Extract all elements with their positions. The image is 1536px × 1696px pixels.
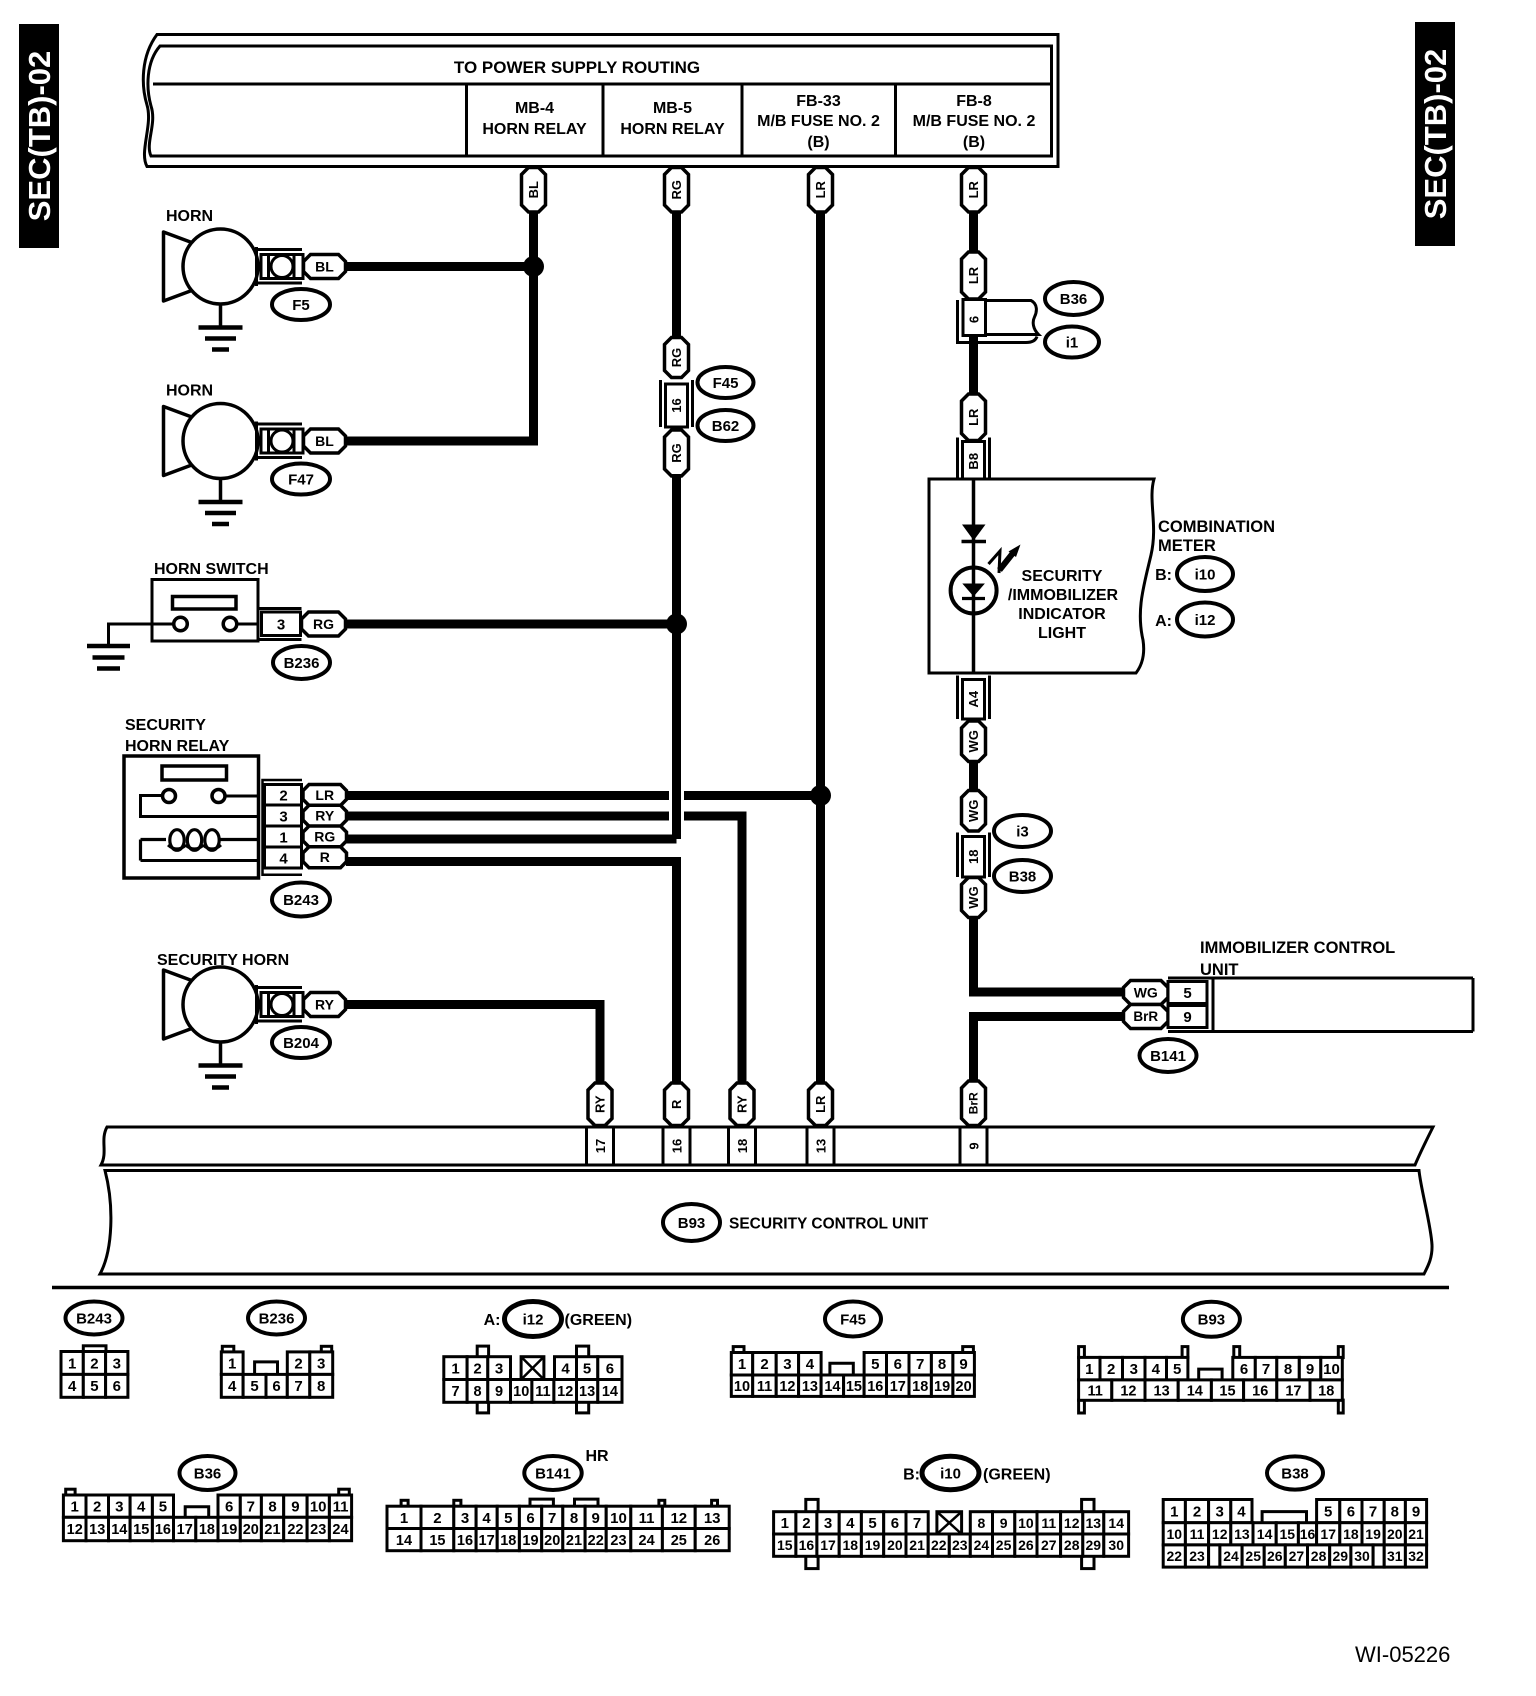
svg-text:9: 9 (1000, 1515, 1008, 1531)
svg-text:HORN RELAY: HORN RELAY (620, 121, 725, 138)
pin 9 on control unit (960, 1127, 987, 1165)
connector ellipse i1 (1045, 327, 1099, 358)
wire relay pin1 RG lead (346, 835, 677, 844)
svg-text:8: 8 (473, 1384, 481, 1400)
svg-text:2: 2 (760, 1356, 768, 1373)
svg-text:i12: i12 (523, 1311, 544, 1328)
ground horn switch (87, 624, 152, 669)
connector capsule WG at immobilizer (1124, 981, 1169, 1005)
svg-text:13: 13 (704, 1510, 721, 1527)
svg-text:11: 11 (1190, 1526, 1205, 1542)
svg-text:5: 5 (250, 1378, 258, 1395)
svg-text:7: 7 (247, 1499, 255, 1516)
svg-text:26: 26 (1018, 1537, 1034, 1553)
connector ellipse F45 (698, 367, 754, 398)
horn 1 body (164, 229, 304, 304)
svg-text:24: 24 (974, 1537, 990, 1553)
label B: i10 (GREEN) (903, 1467, 1050, 1484)
svg-text:B141: B141 (1150, 1048, 1186, 1065)
connector A4 (958, 676, 990, 720)
connector capsule RY pin17 (588, 1083, 612, 1126)
wire relay pin3 RY lead to pin 18 (346, 816, 742, 1085)
svg-text:3: 3 (1216, 1504, 1224, 1521)
svg-text:22: 22 (287, 1522, 303, 1538)
wire LR vertical from FB-33 to pin 13 (816, 210, 825, 1085)
svg-text:4: 4 (228, 1378, 237, 1395)
power supply routing box (143, 35, 1058, 167)
svg-text:LR: LR (813, 180, 828, 198)
svg-text:11: 11 (1088, 1383, 1103, 1399)
svg-text:8: 8 (1284, 1361, 1292, 1378)
svg-text:LR: LR (315, 787, 334, 803)
svg-text:i1: i1 (1066, 334, 1079, 351)
junction dot BL (523, 256, 544, 277)
connector capsule BL horn1 (304, 255, 346, 279)
svg-text:20: 20 (1387, 1526, 1403, 1542)
connector ellipse i12 (pinout) (505, 1302, 562, 1337)
horn switch pin 3 connector (259, 609, 302, 640)
svg-text:14: 14 (111, 1522, 127, 1538)
svg-text:23: 23 (310, 1522, 326, 1538)
svg-text:3: 3 (461, 1510, 469, 1527)
svg-text:26: 26 (704, 1533, 720, 1549)
svg-text:18: 18 (199, 1522, 215, 1538)
svg-text:13: 13 (579, 1384, 595, 1400)
svg-text:B243: B243 (76, 1310, 112, 1327)
svg-text:(B): (B) (807, 134, 829, 151)
svg-text:8: 8 (317, 1378, 325, 1395)
svg-text:18: 18 (912, 1379, 928, 1395)
svg-text:2: 2 (1193, 1504, 1201, 1521)
svg-text:COMBINATION: COMBINATION (1158, 518, 1275, 536)
svg-text:16: 16 (155, 1522, 171, 1538)
svg-text:16: 16 (867, 1379, 883, 1395)
svg-text:23: 23 (610, 1533, 626, 1549)
connector ellipse i12 (meter) (1177, 603, 1233, 637)
svg-text:F47: F47 (288, 471, 314, 488)
svg-text:1: 1 (1085, 1361, 1093, 1378)
svg-text:13: 13 (89, 1522, 105, 1538)
svg-text:LR: LR (966, 266, 981, 284)
svg-text:A4: A4 (966, 690, 981, 707)
svg-text:17: 17 (177, 1522, 193, 1538)
svg-text:5: 5 (868, 1515, 876, 1532)
svg-text:SECURITY: SECURITY (1022, 568, 1103, 585)
svg-text:29: 29 (1333, 1548, 1349, 1564)
svg-text:15: 15 (846, 1379, 862, 1395)
svg-text:20: 20 (887, 1537, 903, 1553)
svg-text:MB-5: MB-5 (653, 100, 692, 117)
svg-text:16: 16 (1252, 1383, 1268, 1399)
junction dot RG at horn switch (666, 614, 687, 635)
svg-text:5: 5 (583, 1361, 591, 1378)
svg-text:5: 5 (1183, 985, 1191, 1002)
svg-text:1: 1 (451, 1361, 459, 1378)
label COMBINATION METER (1158, 518, 1275, 555)
connector grid i12 (444, 1346, 622, 1413)
svg-text:17: 17 (820, 1537, 836, 1553)
svg-text:M/B FUSE NO. 2: M/B FUSE NO. 2 (757, 113, 880, 130)
svg-text:10: 10 (610, 1510, 627, 1527)
svg-text:HORN: HORN (166, 383, 213, 400)
svg-text:15: 15 (777, 1537, 793, 1553)
immobilizer pin 9 (1168, 1006, 1207, 1028)
svg-text:7: 7 (1262, 1361, 1270, 1378)
svg-text:21: 21 (1408, 1526, 1424, 1542)
label HR (586, 1448, 610, 1465)
svg-text:3: 3 (279, 809, 287, 826)
svg-text:B141: B141 (535, 1465, 571, 1482)
svg-text:3: 3 (317, 1356, 325, 1373)
svg-text:10: 10 (310, 1499, 327, 1516)
svg-text:4: 4 (846, 1515, 855, 1532)
svg-text:16: 16 (457, 1533, 473, 1549)
svg-text:BrR: BrR (967, 1092, 981, 1114)
svg-text:22: 22 (931, 1537, 947, 1553)
svg-text:12: 12 (1212, 1526, 1228, 1542)
svg-text:25: 25 (671, 1533, 687, 1549)
label SECURITY HORN RELAY (125, 717, 230, 755)
svg-text:21: 21 (909, 1537, 925, 1553)
svg-text:SEC(TB)-02: SEC(TB)-02 (22, 51, 57, 222)
svg-text:RY: RY (315, 808, 335, 824)
svg-text:5: 5 (90, 1378, 98, 1395)
svg-text:19: 19 (1365, 1526, 1381, 1542)
connector ellipse B38 (pinout) (1267, 1456, 1323, 1489)
svg-text:18: 18 (735, 1139, 750, 1153)
svg-text:/IMMOBILIZER: /IMMOBILIZER (1008, 587, 1119, 604)
svg-text:6: 6 (272, 1378, 280, 1395)
svg-text:3: 3 (824, 1515, 832, 1532)
ground horn 1 (199, 304, 243, 350)
svg-text:(GREEN): (GREEN) (983, 1467, 1051, 1484)
svg-text:14: 14 (1257, 1526, 1273, 1542)
connector capsule RY relay pin3 (303, 805, 347, 826)
svg-text:F45: F45 (713, 375, 739, 392)
svg-text:12: 12 (1120, 1383, 1136, 1399)
wire security horn RY to pin 17 (346, 1005, 600, 1086)
connector ellipse B36 (pinout) (180, 1456, 236, 1490)
svg-text:11: 11 (535, 1384, 550, 1400)
svg-text:16: 16 (1300, 1526, 1316, 1542)
connector ellipse B204 (272, 1027, 330, 1058)
svg-text:WI-05226: WI-05226 (1355, 1642, 1450, 1667)
svg-text:RG: RG (669, 180, 684, 200)
relay pin column (263, 780, 303, 875)
label FB-8 M/B FUSE NO.2 (B) (913, 93, 1036, 151)
svg-text:27: 27 (1289, 1548, 1305, 1564)
svg-text:17: 17 (1285, 1383, 1301, 1399)
svg-text:UNIT: UNIT (1200, 961, 1239, 979)
svg-text:4: 4 (137, 1499, 146, 1516)
svg-text:19: 19 (221, 1522, 237, 1538)
svg-text:RG: RG (669, 443, 684, 463)
connector capsule WG 3 (962, 878, 986, 918)
svg-text:RG: RG (669, 348, 684, 368)
svg-text:RY: RY (735, 1095, 750, 1113)
svg-text:A:: A: (1155, 613, 1172, 630)
pin 18 on control unit (729, 1127, 756, 1165)
connector capsule WG 2 (962, 791, 986, 832)
svg-text:1: 1 (68, 1355, 76, 1372)
svg-text:B236: B236 (284, 655, 320, 672)
svg-text:19: 19 (934, 1379, 950, 1395)
svg-text:27: 27 (1041, 1537, 1057, 1553)
page tab SEC(TB)-02 right (1415, 22, 1455, 246)
page tab SEC(TB)-02 left (19, 24, 59, 248)
label SECURITY/IMMOBILIZER INDICATOR LIGHT (1008, 568, 1119, 642)
svg-text:16: 16 (799, 1537, 815, 1553)
svg-text:21: 21 (264, 1522, 280, 1538)
wire RG vertical segment 1 (672, 210, 681, 340)
svg-text:30: 30 (1354, 1548, 1370, 1564)
svg-text:6: 6 (526, 1510, 534, 1527)
svg-text:1: 1 (228, 1356, 236, 1373)
svg-text:12: 12 (1064, 1515, 1080, 1531)
svg-text:10: 10 (1018, 1515, 1034, 1531)
svg-text:B236: B236 (259, 1310, 295, 1327)
svg-text:INDICATOR: INDICATOR (1018, 606, 1106, 623)
connector capsule LR pin13 (809, 1083, 833, 1126)
connector grid i10 (774, 1499, 1129, 1568)
connector capsule BL under MB-4 (522, 168, 546, 213)
svg-text:13: 13 (814, 1139, 829, 1153)
svg-text:4: 4 (1152, 1361, 1161, 1378)
svg-text:HORN RELAY: HORN RELAY (482, 121, 587, 138)
horn 2 body (164, 404, 304, 479)
connector capsule LR under FB-33 (809, 168, 833, 213)
svg-text:6: 6 (1347, 1504, 1355, 1521)
svg-text:17: 17 (593, 1139, 608, 1153)
svg-text:5: 5 (504, 1510, 512, 1527)
connector capsule WG 1 (962, 721, 986, 762)
LED indicator (security/immobilizer light) (951, 568, 997, 614)
connector capsule BL horn2 (304, 429, 346, 453)
svg-text:10: 10 (1323, 1361, 1340, 1378)
svg-text:1: 1 (738, 1356, 746, 1373)
svg-text:8: 8 (978, 1515, 986, 1531)
connector capsule LR under FB-8 (962, 168, 986, 213)
connector ellipse i3 (994, 815, 1051, 847)
svg-text:SECURITY CONTROL UNIT: SECURITY CONTROL UNIT (729, 1216, 929, 1233)
svg-text:HORN SWITCH: HORN SWITCH (154, 561, 269, 578)
svg-text:15: 15 (429, 1533, 445, 1549)
svg-text:B93: B93 (1198, 1312, 1226, 1329)
svg-text:3: 3 (113, 1355, 121, 1372)
svg-text:6: 6 (606, 1361, 614, 1378)
svg-text:B:: B: (1155, 567, 1172, 584)
wire relay pin4 R lead to pin 16 (346, 862, 677, 1086)
svg-text:6: 6 (894, 1356, 902, 1373)
security control unit pin strip (101, 1127, 1433, 1165)
svg-text:5: 5 (1324, 1504, 1332, 1521)
connector ellipse B38 (chain) (994, 860, 1051, 892)
svg-text:M/B FUSE NO. 2: M/B FUSE NO. 2 (913, 113, 1036, 130)
svg-text:9: 9 (1412, 1504, 1420, 1521)
svg-text:METER: METER (1158, 537, 1216, 555)
connector ellipse B36 (top) (1045, 282, 1102, 315)
connector capsule BrR at immobilizer (1124, 1005, 1169, 1029)
svg-text:7: 7 (1369, 1504, 1377, 1521)
svg-text:8: 8 (1391, 1504, 1399, 1521)
svg-text:9: 9 (967, 1142, 982, 1149)
svg-text:14: 14 (1187, 1383, 1203, 1399)
connector grid B141 (387, 1499, 729, 1551)
svg-text:13: 13 (802, 1379, 818, 1395)
junction dot LR at relay pin2 lead (810, 785, 831, 806)
svg-text:MB-4: MB-4 (515, 100, 554, 117)
svg-text:9: 9 (592, 1510, 600, 1527)
svg-text:1: 1 (781, 1515, 789, 1532)
svg-text:22: 22 (1167, 1548, 1183, 1564)
svg-text:18: 18 (966, 850, 981, 864)
connector capsule LR relay pin2 (303, 785, 347, 806)
svg-text:RG: RG (313, 616, 334, 632)
svg-text:SEC(TB)-02: SEC(TB)-02 (1418, 49, 1453, 220)
svg-text:12: 12 (779, 1379, 795, 1395)
connector grid B36 (63, 1489, 351, 1541)
svg-text:4: 4 (806, 1356, 815, 1373)
svg-text:23: 23 (952, 1537, 968, 1553)
svg-text:HORN RELAY: HORN RELAY (125, 738, 230, 755)
svg-text:8: 8 (268, 1499, 276, 1516)
connector grid B38 (1163, 1500, 1426, 1568)
svg-text:6: 6 (967, 316, 982, 323)
wire BrR from immobilizer to pin 9 (974, 1017, 1127, 1086)
svg-text:5: 5 (159, 1499, 167, 1516)
pin 16 on control unit (663, 1127, 690, 1165)
immobilizer pin 5 (1168, 982, 1207, 1004)
svg-text:BrR: BrR (1133, 1009, 1158, 1024)
label FB-33 M/B FUSE NO.2 (B) (757, 93, 880, 151)
svg-text:(GREEN): (GREEN) (565, 1312, 633, 1329)
svg-text:LR: LR (966, 180, 981, 198)
svg-text:13: 13 (1086, 1515, 1102, 1531)
relay coil (141, 830, 259, 861)
svg-text:18: 18 (1318, 1383, 1334, 1399)
svg-text:2: 2 (93, 1499, 101, 1516)
svg-text:8: 8 (570, 1510, 578, 1527)
connector 18 (i3/B38) (958, 833, 990, 878)
svg-text:15: 15 (1219, 1383, 1235, 1399)
connector capsule LR above B8 (962, 394, 986, 441)
svg-text:B:: B: (903, 1467, 920, 1484)
svg-text:BL: BL (315, 433, 334, 449)
connector ellipse F47 (272, 464, 330, 495)
svg-text:2: 2 (294, 1356, 302, 1373)
svg-text:7: 7 (916, 1356, 924, 1373)
svg-text:2: 2 (1107, 1361, 1115, 1378)
svg-text:7: 7 (548, 1510, 556, 1527)
svg-text:i3: i3 (1016, 823, 1029, 840)
connector capsule R relay pin4 (303, 847, 347, 868)
connector ellipse B93 (pinout) (1183, 1302, 1240, 1337)
svg-text:14: 14 (396, 1533, 412, 1549)
svg-text:6: 6 (891, 1515, 899, 1532)
wire BL vertical from MB-4 with elbow to horn 2 (346, 210, 534, 441)
diode D1 in meter (962, 525, 987, 542)
connector ellipse B141 (unit) (1140, 1039, 1197, 1072)
ground horn 2 (199, 479, 243, 525)
svg-text:28: 28 (1311, 1548, 1327, 1564)
svg-text:19: 19 (522, 1533, 538, 1549)
security horn body (164, 967, 304, 1042)
wire WG down to immobilizer branch (974, 916, 1127, 992)
connector ellipse B243 (relay) (272, 883, 330, 917)
svg-text:2: 2 (433, 1510, 441, 1527)
svg-text:i10: i10 (1195, 566, 1216, 583)
svg-text:LIGHT: LIGHT (1038, 625, 1086, 642)
wire RG vertical segment 2 (crossing casing) (669, 474, 684, 839)
svg-text:4: 4 (68, 1378, 77, 1395)
svg-text:24: 24 (332, 1522, 348, 1538)
label A: i12 (1155, 613, 1172, 630)
svg-text:4: 4 (1237, 1504, 1246, 1521)
svg-text:8: 8 (938, 1356, 946, 1373)
svg-text:LR: LR (966, 408, 981, 426)
svg-text:32: 32 (1408, 1548, 1424, 1564)
svg-text:RY: RY (593, 1095, 608, 1113)
svg-text:31: 31 (1387, 1548, 1403, 1564)
svg-text:21: 21 (566, 1533, 582, 1549)
svg-text:29: 29 (1086, 1537, 1102, 1553)
label HORN 1 (166, 208, 213, 225)
connector capsule RY security horn (304, 993, 346, 1017)
svg-text:20: 20 (956, 1379, 972, 1395)
svg-text:10: 10 (1167, 1526, 1183, 1542)
label B: i10 (1155, 567, 1172, 584)
label MB-5 HORN RELAY (620, 100, 725, 138)
svg-text:B36: B36 (194, 1465, 222, 1482)
connector ellipse B236 (switch) (273, 646, 330, 679)
svg-text:16: 16 (670, 1139, 685, 1153)
svg-text:25: 25 (996, 1537, 1012, 1553)
svg-text:B8: B8 (966, 453, 981, 470)
svg-text:3: 3 (495, 1361, 503, 1378)
svg-text:18: 18 (843, 1537, 859, 1553)
connector ellipse F45 (pinout) (825, 1302, 881, 1337)
svg-text:18: 18 (1343, 1526, 1359, 1542)
svg-text:B38: B38 (1009, 868, 1037, 885)
svg-text:RG: RG (314, 828, 335, 844)
svg-text:F5: F5 (292, 297, 310, 314)
connector capsule RG above fuse (665, 338, 689, 378)
LED emission arrow symbol (989, 545, 1021, 574)
wire inside meter (972, 479, 976, 673)
svg-text:4: 4 (561, 1361, 570, 1378)
connector ellipse B141 (pinout) (524, 1456, 581, 1490)
svg-text:3: 3 (1130, 1361, 1138, 1378)
connector grid B243 (61, 1346, 128, 1398)
svg-text:LR: LR (813, 1095, 828, 1113)
svg-text:WG: WG (966, 800, 981, 822)
svg-text:9: 9 (291, 1499, 299, 1516)
svg-text:7: 7 (451, 1384, 459, 1400)
wire relay pin2 LR lead (346, 791, 821, 800)
svg-text:17: 17 (479, 1533, 495, 1549)
svg-text:HORN: HORN (166, 208, 213, 225)
svg-text:2: 2 (802, 1515, 810, 1532)
svg-text:1: 1 (279, 830, 287, 847)
svg-text:5: 5 (1173, 1361, 1181, 1378)
security control unit body (100, 1171, 1432, 1275)
svg-text:2: 2 (473, 1361, 481, 1378)
svg-text:WG: WG (966, 730, 981, 752)
horn switch box (152, 580, 258, 642)
svg-text:F45: F45 (840, 1311, 866, 1328)
svg-text:(B): (B) (963, 134, 985, 151)
svg-text:FB-33: FB-33 (796, 93, 841, 110)
